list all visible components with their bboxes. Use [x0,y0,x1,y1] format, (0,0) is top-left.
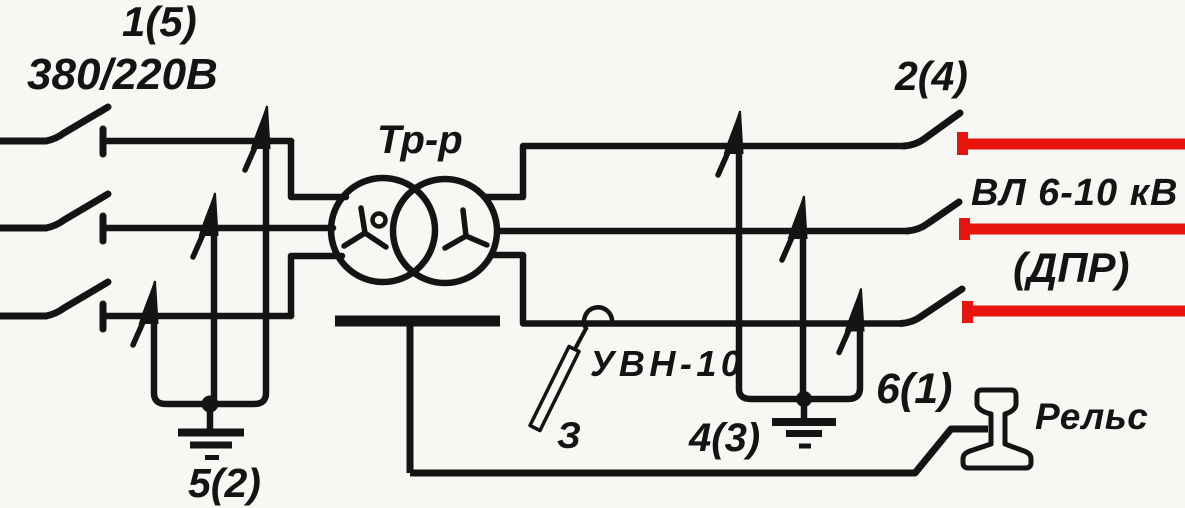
red line 2 [964,224,1185,235]
wire transformer right upper stub to line1' [484,146,904,197]
star symbol primary [344,208,386,247]
red terminal bar 1 [957,132,968,155]
wire hook to rod [576,329,586,348]
wire line3 jog to transformer [291,256,342,316]
wire bottom run to rail [410,429,988,473]
rail symbol [963,390,1031,468]
wire node to ground right [801,399,808,420]
ground left 5(2) [178,433,244,458]
transformer U1 primary winding [331,178,435,282]
svg-text:6(1): 6(1) [876,365,952,413]
busbar under transformer [335,316,500,327]
node right ground junction [796,391,812,407]
wire line1 jog to transformer [291,141,346,197]
arrester B3 on line3' [805,289,864,400]
arrester B2 on line2' [782,196,807,399]
hook of UVN-10 on line3' [584,307,612,328]
wire busbar stem down [407,326,414,473]
ground right 4(3) [772,422,836,446]
wire line2 left [103,225,333,232]
switch S1 phase A low side [0,107,108,154]
wire transformer right lower stub to line3' [491,255,901,324]
svg-text:5(2): 5(2) [188,460,261,506]
insulating rod 3 [530,347,579,431]
arrester A1 on line1 [212,106,270,404]
switch S3 phase C low side [0,282,108,329]
red terminal bar 3 [962,301,973,323]
svg-text:Тр-р: Тр-р [377,118,463,162]
node left ground junction [202,396,219,413]
arrester A2 on line2 [193,193,218,404]
star symbol secondary [445,210,487,248]
switch SW1' line1' [904,113,960,146]
svg-text:2(4): 2(4) [894,53,968,99]
arrester B1 on line1' [718,111,802,399]
switch SW3' line3' [901,289,962,324]
wire line3 left [103,313,291,320]
switch S2 phase B low side [0,194,108,241]
svg-text:1(5): 1(5) [122,0,197,45]
svg-text:Рельс: Рельс [1035,396,1148,437]
red line 1 [962,139,1185,150]
transformer U1 secondary winding [393,179,497,283]
svg-text:УВН-10: УВН-10 [590,343,745,384]
svg-text:4(3): 4(3) [688,416,760,460]
wire node to ground left [207,404,214,430]
svg-text:З: З [557,415,581,456]
svg-text:ВЛ 6-10 кВ: ВЛ 6-10 кВ [971,172,1178,214]
switch SW2' line2' [907,202,959,231]
arrester A3 on line3 [133,281,210,404]
wire line2' right [496,228,907,235]
svg-text:380/220В: 380/220В [27,50,218,99]
wire line1 left [103,138,291,145]
red terminal bar 2 [959,218,970,240]
svg-text:(ДПР): (ДПР) [1013,244,1130,291]
red line 3 [967,306,1185,317]
neutral circle primary [373,214,386,227]
